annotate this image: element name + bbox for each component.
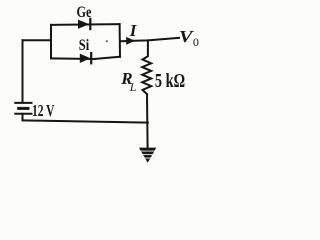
svg-text:Si: Si: [79, 37, 90, 54]
svg-text:I: I: [129, 21, 138, 40]
svg-text:5 kΩ: 5 kΩ: [155, 71, 185, 92]
svg-text:0: 0: [193, 35, 199, 49]
svg-text:Ge: Ge: [77, 3, 92, 21]
svg-text:L: L: [129, 80, 137, 94]
svg-text:12 V: 12 V: [32, 101, 55, 120]
